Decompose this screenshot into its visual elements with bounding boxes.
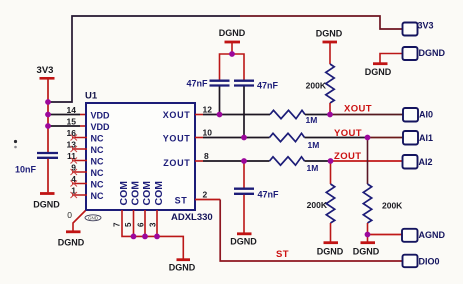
node cap junction dots: [217, 112, 247, 141]
ground DGND bottom left: [317, 243, 344, 257]
svg-text:47nF: 47nF: [186, 79, 208, 89]
svg-text:COM: COM: [141, 181, 153, 206]
svg-text:COM: COM: [153, 181, 165, 206]
wire caps top node: [220, 54, 245, 80]
node cap3 junction dot: [241, 158, 247, 164]
svg-text:8: 8: [204, 151, 209, 161]
svg-text:10: 10: [203, 128, 213, 138]
svg-text:ST: ST: [276, 249, 289, 260]
svg-text:3V3: 3V3: [418, 21, 434, 31]
resistor R 1M ZOUT: [270, 157, 319, 173]
NC pin stubs with X crosses: [72, 138, 87, 196]
pin labels left VDD/NC: [91, 111, 111, 202]
svg-text:NC: NC: [91, 134, 104, 144]
svg-text:DIO0: DIO0: [419, 257, 440, 267]
pin numbers left: [67, 105, 77, 196]
svg-text:10nF: 10nF: [15, 165, 37, 175]
svg-text:VDD: VDD: [91, 122, 111, 132]
svg-text:ADXL330: ADXL330: [171, 212, 213, 223]
wire YOUT mid: [305, 137, 368, 139]
pin labels bottom COM x4: [118, 181, 165, 206]
wire AGND tap: [368, 234, 402, 236]
node XOUT 200K junction: [327, 112, 333, 118]
wire ZOUT mid: [305, 160, 331, 162]
svg-text:6: 6: [137, 222, 146, 227]
connector 3V3: [403, 21, 434, 36]
wire ZOUT pin8: [195, 160, 270, 162]
svg-text:DGND: DGND: [219, 28, 246, 38]
wire YOUT pin10: [195, 137, 270, 139]
svg-text:3: 3: [149, 222, 158, 227]
svg-text:5: 5: [124, 222, 133, 227]
svg-text:47nF: 47nF: [258, 190, 280, 200]
connector AI2: [403, 155, 433, 169]
capacitor C 47nF left: [186, 79, 229, 89]
svg-text:47nF: 47nF: [257, 81, 279, 91]
wire COM pins to rail: [122, 210, 183, 259]
svg-text:NC: NC: [91, 168, 104, 178]
pin numbers bottom 7 5 6 3: [113, 222, 158, 227]
ground DGND bottom right: [353, 243, 380, 257]
resistor R 200K ZOUT pull-down: [307, 161, 335, 242]
svg-text:0: 0: [67, 210, 72, 220]
pin numbers right: [203, 105, 213, 200]
svg-text:NC: NC: [91, 180, 104, 190]
capacitor C10nF: [15, 153, 58, 175]
svg-text:U1: U1: [85, 91, 98, 102]
svg-text:DGND: DGND: [169, 263, 196, 273]
capacitor C 47nF bottom on ZOUT: [234, 161, 279, 233]
capacitor C 47nF right: [234, 81, 279, 91]
pin labels right XOUT YOUT ZOUT ST: [163, 110, 191, 206]
resistor R 1M XOUT: [270, 110, 317, 125]
svg-text:XOUT: XOUT: [344, 104, 372, 115]
connector DIO0: [403, 255, 440, 268]
svg-text:GND: GND: [88, 216, 99, 221]
svg-text:AI1: AI1: [419, 133, 433, 143]
svg-text:7: 7: [113, 222, 122, 227]
svg-text:AGND: AGND: [419, 230, 446, 240]
wire edge artifact marks: [14, 140, 17, 148]
wire cap left to XOUT: [219, 87, 221, 115]
svg-text:COM: COM: [130, 181, 142, 206]
svg-text:200K: 200K: [307, 200, 328, 210]
svg-text:NC: NC: [91, 145, 104, 155]
node AGND junction: [365, 232, 371, 238]
resistor R 200K YOUT pull-down: [363, 138, 403, 242]
wire XOUT mid: [305, 114, 330, 116]
wire 3V3 rail: [47, 79, 49, 153]
resistor R 200K XOUT pull: [306, 64, 335, 115]
svg-text:ZOUT: ZOUT: [163, 158, 190, 168]
op-amp U1 ADXL330 IC body: [85, 91, 213, 224]
node A junction dots on 3V3 rail: [45, 99, 51, 129]
wire 3V3 top branch: [48, 16, 402, 102]
connector AI0: [403, 108, 433, 122]
connector AGND: [402, 229, 445, 242]
svg-text:1M: 1M: [308, 140, 320, 150]
svg-text:2: 2: [203, 190, 208, 200]
pin 0 pad label and GND ellipse: [67, 210, 101, 221]
wire ST net: [195, 200, 403, 262]
svg-text:DGND: DGND: [58, 238, 85, 248]
ground DGND below pad0: [58, 232, 85, 248]
svg-text:ST: ST: [175, 196, 188, 206]
svg-text:NC: NC: [91, 157, 104, 167]
svg-text:14: 14: [67, 105, 77, 115]
node YOUT 200K junction: [365, 135, 371, 141]
svg-text:1M: 1M: [307, 163, 319, 173]
resistor R 1M YOUT: [270, 133, 320, 150]
svg-text:DGND: DGND: [419, 48, 446, 58]
svg-text:NC: NC: [91, 191, 104, 201]
svg-text:XOUT: XOUT: [163, 110, 191, 120]
svg-text:COM: COM: [118, 181, 130, 206]
wire pin15: [48, 125, 87, 127]
ground DGND top middle for caps: [219, 28, 246, 54]
wire pad0 to ground diagonal: [73, 211, 86, 232]
svg-text:AI2: AI2: [419, 157, 433, 167]
wire XOUT pin12: [195, 114, 270, 116]
wire XOUT to AI0: [330, 114, 403, 116]
svg-text:200K: 200K: [382, 201, 403, 211]
svg-text:ZOUT: ZOUT: [334, 151, 361, 162]
ground DGND at connector: [365, 54, 403, 78]
ground DGND top right for 200K: [316, 29, 343, 65]
node COM rail junction dots: [131, 234, 160, 240]
svg-text:12: 12: [203, 105, 213, 115]
node caps top junction: [229, 51, 235, 57]
wire cap right to YOUT: [243, 87, 245, 138]
connector DGND: [403, 47, 446, 60]
svg-text:200K: 200K: [306, 81, 327, 91]
svg-text:DGND: DGND: [230, 237, 257, 247]
power 3V3: [37, 65, 55, 78]
wire 10nF to ground: [47, 159, 49, 193]
svg-text:DGND: DGND: [353, 247, 380, 257]
svg-text:VDD: VDD: [91, 111, 111, 121]
svg-text:DGND: DGND: [317, 247, 344, 257]
ground DGND left: [33, 194, 60, 210]
node ZOUT 200K junction: [328, 158, 334, 164]
svg-text:AI0: AI0: [419, 110, 433, 120]
svg-text:3V3: 3V3: [37, 65, 54, 76]
svg-text:YOUT: YOUT: [163, 134, 191, 144]
wire ZOUT to AI2: [331, 160, 403, 162]
svg-text:1M: 1M: [306, 115, 318, 125]
svg-text:DGND: DGND: [33, 200, 60, 210]
ground DGND below COM rail: [169, 260, 196, 273]
svg-text:15: 15: [67, 117, 77, 127]
ground DGND below cap3: [230, 234, 257, 247]
wire pin14: [48, 114, 87, 116]
wire YOUT to AI1: [368, 137, 404, 139]
svg-text:DGND: DGND: [365, 67, 392, 77]
connector AI1: [403, 131, 433, 145]
svg-text:YOUT: YOUT: [334, 128, 362, 139]
svg-text:DGND: DGND: [316, 29, 343, 39]
